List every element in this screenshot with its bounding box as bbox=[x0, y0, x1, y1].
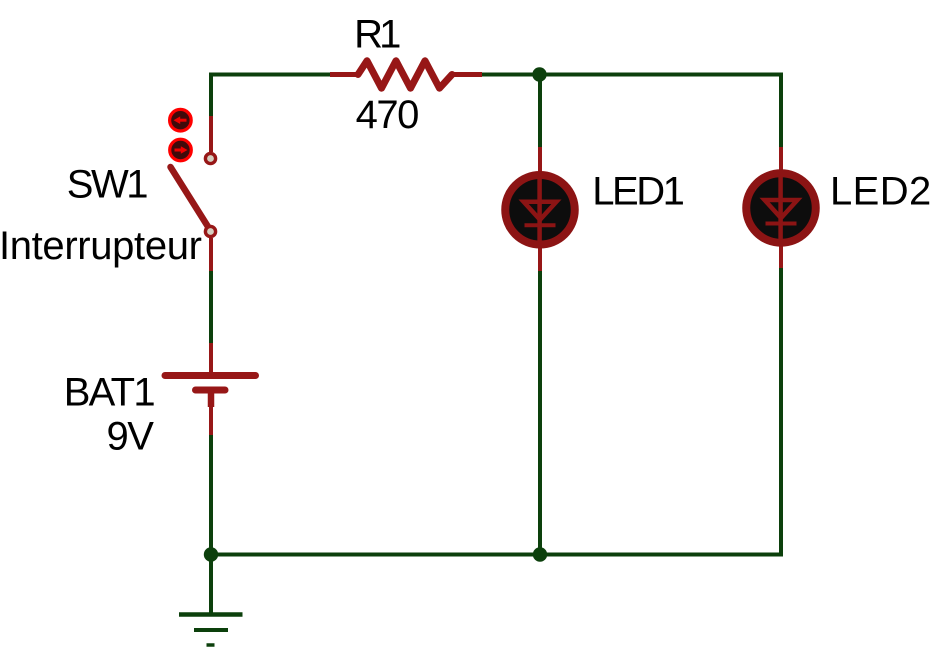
LED1 bbox=[505, 147, 575, 271]
svg-text:BAT1: BAT1 bbox=[64, 371, 155, 415]
svg-text:Interrupteur: Interrupteur bbox=[0, 224, 202, 268]
LED1 body bbox=[505, 175, 575, 245]
node junction bottom (LED1) bbox=[533, 547, 547, 561]
switch lever bbox=[171, 167, 209, 228]
resistor R1 bbox=[330, 61, 482, 88]
switch pin bottom bbox=[209, 238, 213, 271]
LED2 diode cathode bar bbox=[766, 222, 797, 226]
battery pin bottom bbox=[209, 405, 213, 435]
battery plate negative bbox=[196, 387, 226, 394]
switch pin top bbox=[209, 116, 213, 152]
battery BAT1 bbox=[165, 343, 256, 435]
battery stub bbox=[208, 390, 215, 407]
wire bottom rail bbox=[211, 553, 781, 557]
svg-text:9V: 9V bbox=[107, 415, 155, 459]
LED2 body bbox=[746, 173, 816, 243]
svg-text:LED1: LED1 bbox=[592, 170, 683, 214]
ground bbox=[179, 615, 243, 646]
switch actuator button down bbox=[170, 139, 192, 161]
wire ground stem bbox=[209, 554, 213, 614]
LED1 diode line bbox=[537, 174, 542, 246]
switch terminal bottom bbox=[205, 226, 215, 236]
LED1 pin top bbox=[538, 147, 542, 180]
LED2 pin bottom bbox=[779, 239, 783, 268]
wire switch-to-battery bbox=[209, 270, 213, 344]
svg-text:SW1: SW1 bbox=[67, 163, 147, 207]
battery pin top bbox=[209, 343, 213, 374]
switch terminal top bbox=[205, 153, 215, 163]
wire top rail right bbox=[482, 75, 782, 148]
wire battery-to-junction bbox=[209, 435, 213, 555]
LED2 bbox=[746, 147, 816, 268]
LED1 pin bottom bbox=[538, 240, 542, 271]
LED2 diode triangle bbox=[765, 200, 798, 218]
wire top rail bbox=[211, 75, 331, 118]
wire LED1 bottom drop bbox=[538, 271, 542, 555]
switch actuator button up bbox=[170, 109, 192, 131]
LED2 diode line bbox=[778, 172, 783, 244]
node junction top (R1/LED1) bbox=[532, 67, 546, 81]
LED1 diode cathode bar bbox=[525, 223, 556, 227]
LED1 diode triangle bbox=[524, 202, 557, 220]
node junction bottom-left bbox=[204, 547, 218, 561]
svg-text:R1: R1 bbox=[354, 13, 400, 57]
switch SW1 bbox=[170, 109, 216, 271]
wire LED1 top drop bbox=[538, 75, 542, 148]
LED2 pin top bbox=[779, 147, 783, 179]
wire LED2 bottom drop bbox=[779, 267, 783, 557]
battery plate positive bbox=[165, 372, 256, 379]
svg-text:470: 470 bbox=[356, 93, 418, 137]
svg-text:LED2: LED2 bbox=[830, 170, 932, 214]
